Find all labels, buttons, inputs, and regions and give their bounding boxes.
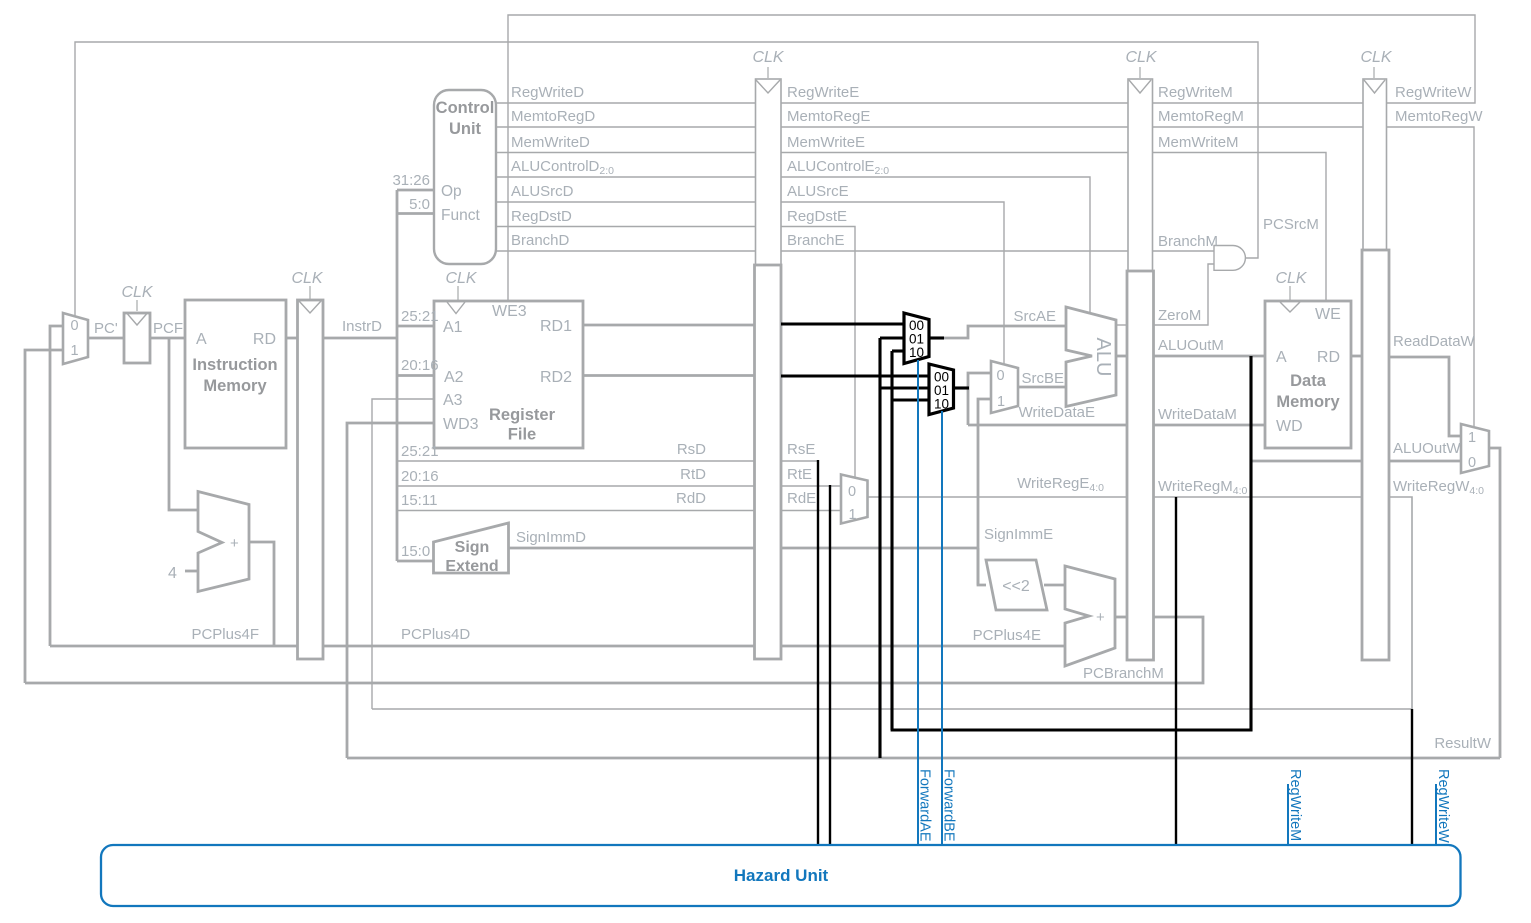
shift left 2 [986, 560, 1047, 610]
register EX/MEM datapath section [1127, 271, 1154, 660]
svg-text:Memory: Memory [203, 377, 267, 395]
svg-text:BranchM: BranchM [1158, 233, 1218, 250]
control unit [434, 90, 496, 264]
wire MemWriteE row [780, 152, 1128, 154]
svg-text:1: 1 [1468, 430, 1476, 446]
svg-text:CLK: CLK [445, 270, 477, 287]
svg-text:+: + [1096, 609, 1105, 626]
wire SignImmE [780, 547, 978, 550]
wire RegDstE row and drop to RegDst mux [780, 227, 855, 479]
mux ResultW (1/0) [1461, 424, 1489, 473]
wire WriteRegW feedback to A3 [372, 708, 1412, 710]
svg-text:MemtoRegE: MemtoRegE [787, 108, 870, 125]
svg-text:CLK: CLK [121, 284, 153, 301]
svg-text:PCPlus4E: PCPlus4E [973, 627, 1041, 644]
wire RdD row [397, 510, 755, 512]
wire MemtoRegD row [495, 126, 755, 128]
wire PCF tap down to PC+4 adder [169, 338, 198, 510]
wire BranchM to AND gate [1153, 250, 1214, 252]
wire CLK tick IF/ID [309, 286, 311, 299]
svg-text:RsD: RsD [677, 441, 706, 458]
wire 25:21 to A1 [397, 325, 434, 328]
svg-text:PCSrcM: PCSrcM [1263, 216, 1319, 233]
wire WriteRegE output of RegDst mux [868, 496, 1129, 498]
svg-text:MemtoRegD: MemtoRegD [511, 108, 595, 125]
svg-text:0: 0 [848, 484, 856, 500]
adder PC+4 [198, 492, 249, 592]
svg-text:ResultW: ResultW [1434, 735, 1492, 752]
svg-text:20:16: 20:16 [401, 468, 439, 485]
svg-text:RegWriteE: RegWriteE [787, 84, 859, 101]
svg-text:ReadDataW: ReadDataW [1393, 333, 1476, 350]
wire forward mux B output stub [954, 386, 970, 389]
svg-text:20:16: 20:16 [401, 357, 439, 374]
register EX/MEM control section [1128, 79, 1153, 273]
wire ResultW mux output down [1489, 448, 1500, 758]
svg-text:25:21: 25:21 [401, 308, 439, 325]
wire branch adder output to EX/MEM register [1115, 616, 1128, 619]
wire WriteDataE row [968, 424, 1128, 427]
wire CLK tick register file [457, 286, 459, 300]
svg-text:File: File [508, 426, 536, 444]
svg-text:Op: Op [441, 183, 462, 200]
svg-text:RtE: RtE [787, 466, 812, 483]
register MEM/WB datapath section [1362, 250, 1389, 660]
wire ZeroM from ALU [1116, 324, 1128, 326]
data memory [1265, 301, 1351, 448]
svg-text:SrcAE: SrcAE [1013, 308, 1056, 325]
wire SrcAE from forward mux to ALU [943, 326, 1066, 338]
wire PCPlus4D [323, 645, 755, 648]
wire CLK tick data memory [1289, 286, 1291, 300]
svg-text:WriteDataE: WriteDataE [1019, 404, 1095, 421]
ALU [1066, 307, 1116, 407]
svg-text:MemtoRegM: MemtoRegM [1158, 108, 1244, 125]
wire RegWriteE row [780, 102, 1128, 104]
svg-text:WriteDataM: WriteDataM [1158, 406, 1237, 423]
svg-text:5:0: 5:0 [409, 196, 430, 213]
svg-text:A1: A1 [443, 319, 463, 336]
wire SrcBE mux2 output to WriteDataE and SrcB mux input0 [968, 373, 991, 425]
wire RegWriteD row [495, 102, 755, 104]
wire SignImmE down to shift left 2 [978, 548, 986, 585]
wire RegWriteM stub to hazard unit [1287, 784, 1289, 845]
mux RegDst (0/1) [841, 475, 868, 524]
svg-text:SignImmD: SignImmD [516, 529, 586, 546]
node PCSrcM net: top horizontal [75, 42, 1258, 316]
wire ALUSrcD row [495, 201, 755, 203]
wire ALUOutW to ResultW mux input0 [1389, 460, 1461, 463]
svg-text:RegWriteW: RegWriteW [1395, 84, 1472, 101]
wire ResultW long feedback [347, 757, 1500, 760]
adder branch [1065, 566, 1115, 666]
svg-text:RegWriteD: RegWriteD [511, 84, 584, 101]
svg-text:RsE: RsE [787, 441, 815, 458]
register PC [124, 313, 150, 363]
svg-text:1: 1 [849, 507, 857, 523]
wire BranchE row [780, 250, 1128, 252]
svg-text:RD2: RD2 [540, 369, 572, 386]
svg-text:MemWriteD: MemWriteD [511, 134, 590, 151]
wire CLK tick MEM/WB [1373, 67, 1375, 78]
wire RtE to RegDst mux input0 [780, 485, 841, 487]
svg-text:RegDstE: RegDstE [787, 208, 847, 225]
svg-text:A2: A2 [444, 369, 464, 386]
wire SrcBE SrcB mux output to ALU [1018, 386, 1066, 389]
svg-text:Hazard Unit: Hazard Unit [734, 866, 829, 885]
wire MemtoRegE row [780, 126, 1128, 128]
wire CLK tick ID/EX [767, 67, 769, 78]
svg-text:ALUControlE2:0: ALUControlE2:0 [787, 158, 889, 177]
svg-text:ForwardBE: ForwardBE [941, 769, 957, 842]
svg-text:RdE: RdE [787, 490, 816, 507]
svg-text:25:21: 25:21 [401, 443, 439, 460]
wire ALUOutM forward vertical [890, 351, 893, 730]
svg-text:WD3: WD3 [443, 416, 479, 433]
mux ForwardA (00/01/10) [904, 313, 929, 364]
wire ALUControlD row [495, 176, 755, 178]
wire MemtoRegW row and drop to ResultW mux select [1387, 127, 1474, 428]
instruction memory [185, 300, 286, 448]
svg-text:SrcBE: SrcBE [1021, 370, 1064, 387]
svg-text:InstrD: InstrD [342, 318, 382, 335]
svg-text:CLK: CLK [291, 270, 323, 287]
svg-text:10: 10 [909, 345, 924, 360]
svg-text:Sign: Sign [455, 539, 490, 556]
wire CLK tick PC [136, 300, 138, 311]
wire ZeroM to AND gate [1153, 264, 1214, 325]
wire RD to IF/ID register [286, 337, 297, 340]
svg-text:WD: WD [1276, 418, 1303, 435]
wire PCPlus4E to branch adder [780, 645, 1065, 648]
svg-text:RD1: RD1 [540, 318, 572, 335]
svg-text:RD: RD [1317, 349, 1340, 366]
svg-text:ALUOutM: ALUOutM [1158, 337, 1224, 354]
svg-text:MemWriteE: MemWriteE [787, 134, 865, 151]
wire WriteRegM to hazard unit [1175, 497, 1177, 845]
wire WD3 from ResultW [347, 423, 434, 758]
wire A3 from WriteRegW feedback [372, 399, 434, 709]
svg-text:ForwardAE: ForwardAE [917, 769, 933, 842]
svg-text:Data: Data [1290, 372, 1327, 390]
wire RsE stub [780, 460, 818, 462]
hazard unit [101, 845, 1461, 906]
wire InstrD [323, 337, 397, 340]
mux ForwardB (00/01/10) [929, 364, 954, 415]
wire RsD row [397, 460, 755, 462]
register file [434, 301, 583, 448]
wire RtE to hazard unit [829, 485, 831, 845]
wire RegWriteM row [1153, 102, 1363, 104]
wire ALUOutM forward stub to mux A input 10 [892, 349, 904, 352]
wire ALUOutM forward stub to mux B input 10 [892, 398, 929, 401]
wire ALUOutM to data memory A [1153, 355, 1265, 358]
wire MemWriteM row and drop to WE [1153, 153, 1326, 302]
wire PCF PC register to Instruction Memory [150, 337, 185, 340]
svg-text:RdD: RdD [676, 490, 706, 507]
wire MemtoRegM row [1153, 126, 1363, 128]
wire BranchD row [495, 250, 755, 252]
gate AND branch [1214, 246, 1245, 271]
wire PC' mux to PC register [88, 337, 124, 340]
wire ALUOutM forward horizontal [891, 728, 1253, 731]
sign extend [434, 523, 509, 573]
wire RD2 black to forward mux B [781, 374, 929, 377]
wire adder output to PCPlus4F [249, 542, 274, 646]
svg-text:A: A [196, 331, 207, 348]
svg-text:BranchD: BranchD [511, 232, 570, 249]
wire 4 constant stub [185, 570, 198, 573]
wire ALU output to EX/MEM register [1116, 355, 1128, 358]
wire ForwardBE select [941, 411, 943, 845]
wire WriteRegW row and drop [1389, 497, 1412, 710]
wire RD1 black to forward mux A [781, 322, 904, 325]
svg-text:0: 0 [1468, 455, 1476, 471]
svg-text:Control: Control [436, 99, 495, 117]
svg-text:31:26: 31:26 [392, 172, 430, 189]
svg-text:PC': PC' [94, 320, 118, 337]
svg-text:Memory: Memory [1276, 393, 1340, 411]
wire WriteRegM row [1153, 496, 1363, 498]
wire PC mux input0 from PCPlus4F [50, 326, 63, 646]
svg-text:PCBranchM: PCBranchM [1083, 665, 1164, 682]
svg-text:4: 4 [168, 565, 177, 582]
svg-text:0: 0 [71, 318, 79, 334]
wire PCBranchM from register through to PC mux [25, 617, 1203, 683]
wire MemWriteD row [495, 152, 755, 154]
wire 20:16 to A2 [397, 374, 434, 377]
svg-text:Funct: Funct [441, 207, 480, 224]
svg-text:MemtoRegW: MemtoRegW [1395, 108, 1483, 125]
wire PC mux input1 from PCBranchM [25, 350, 63, 683]
svg-text:ALUSrcE: ALUSrcE [787, 183, 849, 200]
wire SignImmE up to SrcB mux input1 [978, 399, 991, 585]
svg-text:RtD: RtD [680, 466, 706, 483]
wire ResultW forward stub to mux A input 01 [880, 336, 904, 339]
svg-text:+: + [230, 535, 239, 552]
svg-text:CLK: CLK [1125, 49, 1157, 66]
mux PC source (0/1) [63, 313, 88, 364]
svg-text:ZeroM: ZeroM [1158, 307, 1201, 324]
svg-text:1: 1 [997, 394, 1005, 410]
wire ALUOutM forward drop [1249, 356, 1252, 731]
node RegWriteW feedback to WE3 [508, 15, 1475, 301]
svg-text:0: 0 [997, 368, 1005, 384]
register MEM/WB control section [1363, 79, 1387, 251]
wire ALUControlE row and drop to ALU [780, 177, 1090, 313]
svg-text:RegWriteM: RegWriteM [1158, 84, 1233, 101]
mux ALUSrc (0/1) [991, 361, 1018, 413]
wire RegDstD row [495, 226, 755, 228]
svg-text:10: 10 [934, 397, 949, 412]
svg-text:A: A [1276, 349, 1287, 366]
wire RtD row [397, 485, 755, 487]
svg-text:RegWriteM: RegWriteM [1287, 769, 1303, 841]
wire WriteDataM to data memory WD [1153, 424, 1265, 427]
svg-text:SignImmE: SignImmE [984, 526, 1053, 543]
wire SignImmD [508, 547, 755, 550]
wire ForwardAE select [917, 360, 919, 845]
svg-text:15:11: 15:11 [401, 492, 437, 509]
svg-text:A3: A3 [443, 392, 463, 409]
wire WriteRegW to hazard unit [1411, 709, 1413, 845]
svg-text:ALUOutW: ALUOutW [1393, 440, 1461, 457]
svg-text:MemWriteM: MemWriteM [1158, 134, 1239, 151]
register ID/EX datapath section [755, 265, 782, 659]
wire forward mux A output stub [929, 336, 944, 339]
svg-text:RegWriteW: RegWriteW [1435, 769, 1451, 843]
svg-text:ALUSrcD: ALUSrcD [511, 183, 574, 200]
register IF/ID pipeline [298, 300, 324, 659]
wire 15:0 to sign extend [397, 560, 434, 563]
svg-text:CLK: CLK [1275, 270, 1307, 287]
svg-text:15:0: 15:0 [401, 543, 430, 560]
wire CLK tick EX/MEM [1139, 67, 1141, 78]
svg-text:ALUControlD2:0: ALUControlD2:0 [511, 158, 614, 177]
wire RD2 register file to pipeline register [583, 374, 755, 377]
wire 31:26 Op stub [397, 189, 434, 192]
wire ReadDataW to ResultW mux input1 [1389, 357, 1461, 436]
svg-text:CLK: CLK [1360, 49, 1392, 66]
svg-text:PCPlus4D: PCPlus4D [401, 626, 470, 643]
wire PCPlus4F [50, 645, 297, 648]
wire ResultW forward stub to mux B input 01 [880, 386, 929, 389]
svg-text:WE3: WE3 [492, 303, 527, 320]
wire InstrD vertical bus [396, 190, 399, 561]
wire RD1 register file to pipeline register [583, 324, 755, 327]
wire ALUOut bypass below data memory [1252, 460, 1362, 463]
svg-text:RegDstD: RegDstD [511, 208, 572, 225]
wire shift left 2 output to branch adder [1044, 584, 1065, 587]
wire RdE to RegDst mux input1 [780, 510, 841, 512]
svg-text:1: 1 [71, 343, 79, 359]
wire RsE to hazard unit [817, 460, 819, 845]
svg-text:BranchE: BranchE [787, 232, 845, 249]
wire 5:0 Funct stub [397, 212, 434, 215]
svg-text:RD: RD [253, 331, 276, 348]
svg-text:<<2: <<2 [1002, 578, 1030, 595]
svg-text:PCPlus4F: PCPlus4F [191, 626, 259, 643]
svg-text:WE: WE [1315, 306, 1341, 323]
svg-text:Instruction: Instruction [192, 356, 277, 374]
wire RegWriteW stub to hazard unit [1435, 784, 1437, 845]
svg-text:PCF: PCF [153, 320, 183, 337]
svg-text:Unit: Unit [449, 120, 482, 138]
svg-text:Extend: Extend [445, 558, 498, 575]
svg-text:Register: Register [489, 406, 556, 424]
wire ReadData to MEM/WB register [1351, 355, 1362, 358]
register ID/EX control section [756, 79, 782, 267]
wire ALUSrcE row and drop to SrcB mux [780, 202, 1004, 364]
wire ResultW forward vertical [878, 338, 881, 758]
svg-text:ALU: ALU [1092, 338, 1114, 377]
svg-text:CLK: CLK [752, 49, 784, 66]
